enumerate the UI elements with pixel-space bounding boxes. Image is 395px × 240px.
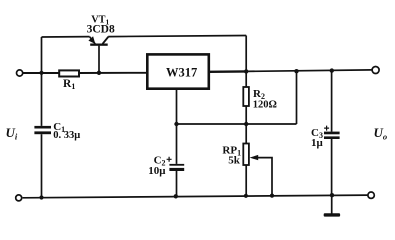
- svg-text:Ui: Ui: [6, 125, 18, 142]
- svg-text:120Ω: 120Ω: [253, 100, 277, 111]
- svg-text:1μ: 1μ: [311, 137, 324, 149]
- svg-text:0. 33μ: 0. 33μ: [53, 130, 80, 141]
- svg-text:3CD8: 3CD8: [87, 23, 115, 35]
- svg-text:Uo: Uo: [374, 125, 388, 142]
- svg-text:10μ: 10μ: [148, 165, 166, 177]
- svg-text:R1: R1: [63, 78, 75, 91]
- svg-text:W317: W317: [166, 65, 197, 79]
- svg-text:5k: 5k: [228, 154, 241, 166]
